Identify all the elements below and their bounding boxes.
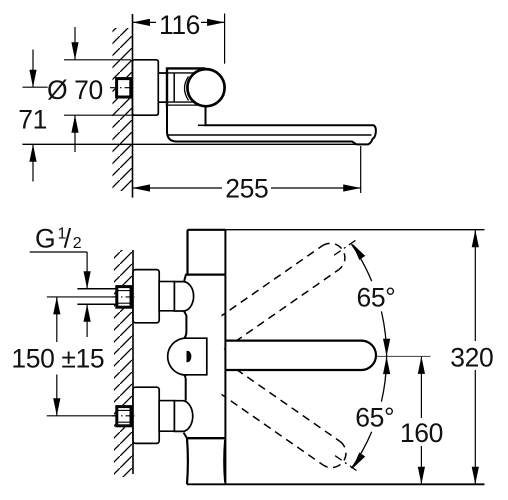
- bottom pipe inner edge: [223, 440, 226, 482]
- top supply pipe (bottom view): [188, 230, 226, 275]
- neck right edge (top view): [173, 73, 175, 102]
- 65 degree arc upper: [352, 244, 396, 357]
- wall hatching (bottom view): [114, 250, 133, 477]
- pipe OD arrow: [86, 305, 88, 337]
- dimension 116: [133, 10, 225, 64]
- body right edge: [224, 230, 226, 484]
- upper dashed spout centre extension: [334, 238, 359, 255]
- top connector (bottom view): [159, 282, 174, 311]
- dimension 160: [400, 356, 443, 484]
- top extension line / 320 top (bottom view): [225, 229, 484, 231]
- spout top edge overhang (top view): [198, 124, 207, 126]
- bottom supply pipe (bottom view): [186, 438, 189, 484]
- svg-text:Ø 70: Ø 70: [47, 75, 103, 105]
- dimension 71: [18, 50, 47, 182]
- nut centerline (top view): [110, 87, 135, 89]
- IR sensor window: [187, 351, 192, 362]
- svg-text:71: 71: [18, 104, 47, 134]
- top inlet centreline: [47, 296, 110, 298]
- svg-text:65°: 65°: [355, 403, 394, 433]
- svg-text:G: G: [35, 224, 55, 254]
- 65 degree arc lower: [352, 357, 395, 469]
- lower dashed spout centre extension: [335, 456, 360, 473]
- wall face line (bottom view): [132, 250, 134, 474]
- baseline (bottom view): [187, 483, 485, 485]
- dimension 320: [450, 230, 493, 485]
- hex nut behind wall (top view): [117, 79, 131, 97]
- dimension diameter 70: [47, 27, 137, 152]
- body top edge: [186, 274, 226, 276]
- svg-text:320: 320: [450, 343, 493, 373]
- upper dashed swivel spout: [208, 238, 351, 350]
- body bottom edge: [187, 437, 225, 439]
- faucet body slab (bottom view): [184, 275, 188, 439]
- escutcheon flange (top view): [133, 60, 159, 115]
- svg-text:150 ±15: 150 ±15: [11, 344, 104, 374]
- cartridge housing (top view): [167, 68, 204, 105]
- svg-text:255: 255: [225, 173, 268, 203]
- spout drop + arm outline (top view): [167, 106, 376, 145]
- svg-text:/: /: [64, 224, 72, 254]
- top check valve dome (bottom view): [174, 282, 193, 311]
- long reference line (top view): [22, 143, 369, 145]
- dimension 150 +-15: [11, 297, 104, 416]
- svg-text:160: 160: [400, 418, 443, 448]
- bottom check valve dome (bottom view): [174, 401, 192, 432]
- wall face line (top view): [132, 14, 134, 198]
- bottom union nut (bottom view): [112, 407, 135, 426]
- wall hatching (top view): [113, 28, 133, 191]
- top mounting plate (bottom view): [133, 270, 159, 323]
- bottom mounting plate (bottom view): [133, 387, 159, 443]
- neck shoulder lines (top view): [158, 72, 195, 74]
- svg-text:65°: 65°: [357, 283, 396, 313]
- G 1/2 label and leader: [30, 224, 91, 337]
- valve neck (top view): [158, 73, 174, 102]
- cylinder edge arc (top view): [185, 77, 189, 101]
- lower dashed swivel spout: [209, 362, 352, 474]
- svg-text:2: 2: [73, 235, 82, 252]
- svg-text:116: 116: [159, 10, 200, 40]
- bottom inlet centreline: [47, 415, 110, 417]
- solid spout plan (bottom view): [226, 341, 377, 370]
- sensor boss (bottom view): [168, 338, 207, 375]
- inlet pipe stub G1/2 (bottom view): [77, 288, 116, 290]
- bottom connector (bottom view): [159, 401, 174, 432]
- spout contour line (top view): [168, 134, 372, 136]
- top union nut (bottom view): [112, 287, 135, 308]
- spout centreline at tip (bottom view): [352, 355, 431, 357]
- mixer knob circle (top view): [187, 69, 224, 106]
- dimension 255: [133, 146, 361, 203]
